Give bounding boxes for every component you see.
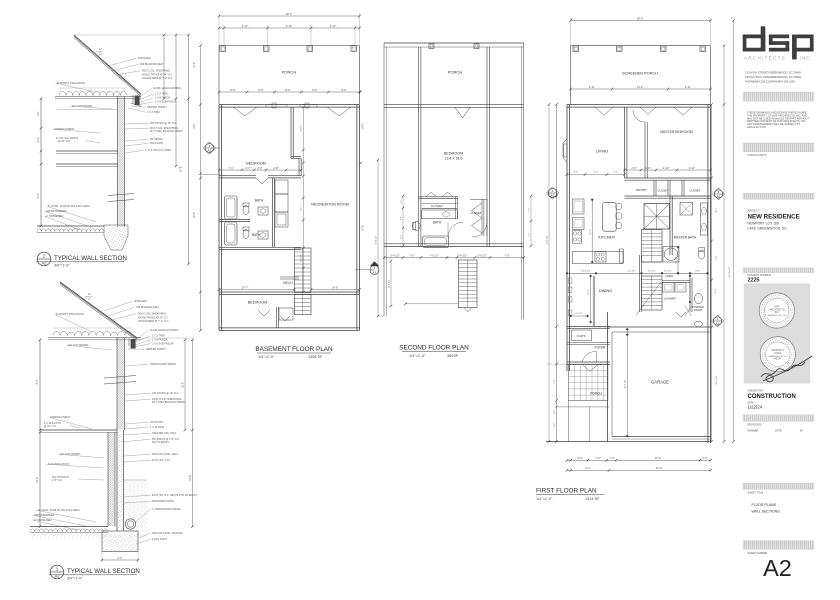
svg-text:16'-8": 16'-8" <box>194 212 196 218</box>
svg-text:WALL SECTIONS: WALL SECTIONS <box>752 510 781 514</box>
svg-text:VENTED SOFFIT: VENTED SOFFIT <box>147 106 167 109</box>
svg-text:ALUM. EAVE FLASHING: ALUM. EAVE FLASHING <box>150 329 178 332</box>
svg-text:2 X 8 SUB-FASCIA: 2 X 8 SUB-FASCIA <box>152 343 174 346</box>
svg-text:@ 16" O.C.: @ 16" O.C. <box>58 140 71 143</box>
svg-text:57'-8": 57'-8" <box>180 166 183 172</box>
svg-text:SHINGLES: SHINGLES <box>134 300 147 303</box>
svg-text:2'-0": 2'-0" <box>609 456 614 460</box>
svg-text:LIVING: LIVING <box>596 150 608 154</box>
svg-text:BEDROOM: BEDROOM <box>248 301 268 305</box>
svg-text:4'-11": 4'-11" <box>689 166 695 170</box>
svg-text:7'-6 1/2": 7'-6 1/2" <box>429 253 439 257</box>
svg-text:NEW RESIDENCE: NEW RESIDENCE <box>748 214 800 221</box>
svg-text:PANTRY: PANTRY <box>636 188 647 192</box>
svg-text:BEDROOM: BEDROOM <box>246 162 266 166</box>
svg-text:5'-4 1/2": 5'-4 1/2" <box>457 253 467 257</box>
svg-text:DINING: DINING <box>599 289 612 293</box>
svg-text:15# BUILDING FELT: 15# BUILDING FELT <box>136 306 160 309</box>
svg-text:7'-9": 7'-9" <box>504 253 509 257</box>
svg-text:OR RAFTERS AT 7'-4" O.C.: OR RAFTERS AT 7'-4" O.C. <box>142 77 173 80</box>
svg-text:1 X 10 TRIM: 1 X 10 TRIM <box>150 426 164 429</box>
svg-text:1 X 2 TRIM: 1 X 2 TRIM <box>152 335 165 338</box>
svg-text:TYPICAL WALL SECTION: TYPICAL WALL SECTION <box>54 255 127 262</box>
svg-text:#4 AT (24" O.C.): #4 AT (24" O.C.) <box>152 459 170 462</box>
svg-text:PORCH: PORCH <box>590 392 602 396</box>
svg-text:2X6 PLATE: 2X6 PLATE <box>150 142 163 145</box>
svg-text:15# BUILDING FELT: 15# BUILDING FELT <box>140 63 164 66</box>
svg-text:BY: BY <box>800 430 804 433</box>
svg-text:FIRST FLOOR PLAN: FIRST FLOOR PLAN <box>536 488 597 495</box>
svg-text:2X6 PLATE: 2X6 PLATE <box>150 421 163 424</box>
svg-text:2'-8" O.C.: 2'-8" O.C. <box>52 479 63 482</box>
svg-text:ROOM: ROOM <box>694 308 702 312</box>
svg-text:9/16 O.S.B. SHEATHING: 9/16 O.S.B. SHEATHING <box>138 313 166 316</box>
svg-text:3'-4 1/2": 3'-4 1/2" <box>390 253 400 257</box>
svg-text:4'-0": 4'-0" <box>594 172 598 174</box>
svg-text:5'-0 1/2": 5'-0 1/2" <box>664 271 672 273</box>
svg-text:7'-4": 7'-4" <box>554 379 556 384</box>
svg-text:2'-3": 2'-3" <box>257 166 262 170</box>
svg-text:10'-6": 10'-6" <box>588 289 590 295</box>
svg-text:VAPOR BARRIER: VAPOR BARRIER <box>34 514 55 517</box>
svg-text:2X6 STUDS @ 16" O.C.: 2X6 STUDS @ 16" O.C. <box>150 122 177 125</box>
svg-text:BASEMENT FLOOR PLAN: BASEMENT FLOOR PLAN <box>255 346 333 353</box>
svg-text:3000 PSI CONC. FOOTING: 3000 PSI CONC. FOOTING <box>152 532 183 535</box>
svg-text:2-#4'S CONT.: 2-#4'S CONT. <box>152 538 168 541</box>
svg-text:R-13 INSULATION: R-13 INSULATION <box>48 463 69 466</box>
svg-text:ALUM. EAVE FLASHING: ALUM. EAVE FLASHING <box>153 87 181 90</box>
svg-text:CLOSET: CLOSET <box>689 189 700 193</box>
svg-text:VAPOR BARRIER: VAPOR BARRIER <box>46 210 67 213</box>
svg-text:3/4"=1'-0": 3/4"=1'-0" <box>67 577 83 581</box>
svg-text:14'-0": 14'-0" <box>194 123 196 129</box>
svg-text:A2: A2 <box>763 555 792 581</box>
svg-text:4" STONE BED: 4" STONE BED <box>34 519 52 522</box>
svg-text:A2: A2 <box>54 574 60 579</box>
svg-text:PORCH: PORCH <box>448 70 463 75</box>
svg-text:8'-2": 8'-2" <box>312 88 317 92</box>
svg-text:4" CONC. SLAB W/ 6X6 10/10 WWM: 4" CONC. SLAB W/ 6X6 10/10 WWM <box>38 509 79 512</box>
svg-text:7'-8": 7'-8" <box>716 256 718 261</box>
svg-text:GREENWOOD, SC: GREENWOOD, SC <box>767 315 787 317</box>
svg-text:1 X 8 FASCIA: 1 X 8 FASCIA <box>155 97 171 100</box>
svg-text:1" X 3" STUCCO TRIM: 1" X 3" STUCCO TRIM <box>145 149 171 152</box>
svg-text:GARAGE: GARAGE <box>651 380 669 385</box>
svg-text:SECOND FLOOR PLAN: SECOND FLOOR PLAN <box>399 345 469 352</box>
svg-text:28'-0": 28'-0" <box>637 16 644 20</box>
svg-text:14'-2": 14'-2" <box>637 85 644 89</box>
svg-text:9'-2": 9'-2" <box>585 466 590 470</box>
svg-text:2'-8": 2'-8" <box>273 166 278 170</box>
svg-text:4" STONE BED: 4" STONE BED <box>46 215 64 218</box>
svg-text:REVISIONS: REVISIONS <box>748 424 762 427</box>
svg-text:1 X 8 FASCIA: 1 X 8 FASCIA <box>152 339 168 342</box>
svg-text:BATH: BATH <box>433 221 442 225</box>
svg-text:#4 AT (36" O.C. SET IN PTD. W: #4 AT (36" O.C. SET IN PTD. W/ EPOXY <box>152 494 198 497</box>
svg-text:2'-0": 2'-0" <box>117 556 122 560</box>
svg-text:PROJECT: PROJECT <box>748 210 760 213</box>
svg-text:SHEET TITLE: SHEET TITLE <box>748 492 764 495</box>
svg-text:CONSTRUCTION: CONSTRUCTION <box>748 394 796 400</box>
svg-text:7'-6": 7'-6" <box>529 208 531 212</box>
svg-text:3000 PSI CONC. WALL: 3000 PSI CONC. WALL <box>152 453 179 456</box>
svg-text:NUMBER: NUMBER <box>748 430 759 433</box>
svg-text:4" CONC. SLAB W/ 6X6 10/10 WWM: 4" CONC. SLAB W/ 6X6 10/10 WWM <box>48 205 89 208</box>
svg-text:1/4"=1'-0": 1/4"=1'-0" <box>536 497 553 501</box>
svg-text:R-38 BATT INSULATION: R-38 BATT INSULATION <box>57 82 85 85</box>
svg-text:2'-8": 2'-8" <box>695 271 700 273</box>
svg-text:47'-10 1/2": 47'-10 1/2" <box>729 267 731 278</box>
svg-text:11'-4 1/2": 11'-4 1/2" <box>388 279 390 288</box>
svg-text:@ 16" O.C.: @ 16" O.C. <box>44 425 57 428</box>
svg-text:CONSULTANTS: CONSULTANTS <box>748 153 767 157</box>
svg-text:8'-2": 8'-2" <box>258 88 263 92</box>
svg-text:4'-6": 4'-6" <box>715 289 717 294</box>
svg-text:ARCHITECTS: ARCHITECTS <box>744 55 786 60</box>
svg-text:PHONE/864 229-2100/FAX/864 229: PHONE/864 229-2100/FAX/864 229-2150 <box>745 80 796 84</box>
svg-text:3'-4": 3'-4" <box>574 172 578 174</box>
svg-text:NEWPORT LOT 169: NEWPORT LOT 169 <box>748 222 779 226</box>
svg-text:CLOSET: CLOSET <box>657 189 668 193</box>
svg-text:9'-11": 9'-11" <box>685 85 691 89</box>
svg-text:2'-6": 2'-6" <box>645 166 650 170</box>
svg-text:1/2" GYP. BOARD: 1/2" GYP. BOARD <box>72 105 92 108</box>
svg-text:2'-10": 2'-10" <box>663 166 670 170</box>
svg-text:32'-6 1/2": 32'-6 1/2" <box>625 379 627 388</box>
svg-text:9/16 O.S.B. SHEATHING: 9/16 O.S.B. SHEATHING <box>142 70 170 73</box>
svg-text:7'-1": 7'-1" <box>228 166 233 170</box>
svg-text:POSTAL BOX 1426/GREENWOOD,: POSTAL BOX 1426/GREENWOOD, SC 29649 <box>745 75 801 79</box>
svg-text:TYPICAL WALL SECTION: TYPICAL WALL SECTION <box>67 568 140 575</box>
svg-text:10'-2": 10'-2" <box>36 477 39 483</box>
svg-text:RECREATION ROOM: RECREATION ROOM <box>311 203 348 207</box>
svg-text:DATE: DATE <box>775 430 782 433</box>
svg-text:SCREENED PORCH: SCREENED PORCH <box>622 72 658 76</box>
svg-text:HARDI-PLANK SIDING: HARDI-PLANK SIDING <box>150 363 176 366</box>
svg-text:10'-4 1/2": 10'-4 1/2" <box>581 271 590 273</box>
svg-text:16'-9": 16'-9" <box>301 125 303 131</box>
svg-text:1 X 3 TRIM: 1 X 3 TRIM <box>147 111 160 114</box>
svg-text:6'-6": 6'-6" <box>577 456 582 460</box>
svg-text:W/ TYVEC BUILDING WRAP: W/ TYVEC BUILDING WRAP <box>150 130 183 133</box>
svg-text:HP SIDING: HP SIDING <box>150 138 163 141</box>
svg-text:A2: A2 <box>208 148 212 152</box>
svg-text:LEGAL ACTION.: LEGAL ACTION. <box>747 125 767 129</box>
svg-text:2'-0": 2'-0" <box>631 166 636 170</box>
svg-text:7'-0": 7'-0" <box>409 253 414 257</box>
svg-text:10'-6": 10'-6" <box>189 475 192 481</box>
svg-text:9'-2": 9'-2" <box>230 88 235 92</box>
svg-text:PORCH: PORCH <box>282 70 297 75</box>
svg-text:3'-7": 3'-7" <box>245 166 250 170</box>
svg-text:8'-0": 8'-0" <box>36 379 39 384</box>
svg-text:CLOSET: CLOSET <box>431 204 443 208</box>
svg-text:24'-1 1/2": 24'-1 1/2" <box>546 235 548 244</box>
svg-text:MECH: MECH <box>283 281 293 285</box>
svg-text:1'-6": 1'-6" <box>401 200 403 204</box>
svg-text:380SF: 380SF <box>447 354 459 358</box>
svg-text:13'-0": 13'-0" <box>181 382 184 388</box>
svg-text:3/4"=1'-0": 3/4"=1'-0" <box>54 264 70 268</box>
svg-text:1'-2": 1'-2" <box>37 111 40 116</box>
svg-text:ISSUED FOR: ISSUED FOR <box>748 390 763 393</box>
svg-text:9'-11": 9'-11" <box>589 85 595 89</box>
svg-text:1/4"=1'-0": 1/4"=1'-0" <box>409 354 426 358</box>
svg-text:A2: A2 <box>717 194 721 198</box>
svg-text:3'-6": 3'-6" <box>301 207 303 212</box>
svg-text:R-38 BATT INSULATION: R-38 BATT INSULATION <box>56 313 84 316</box>
svg-text:4" PERFORATED DRAIN: 4" PERFORATED DRAIN <box>152 508 181 511</box>
svg-text:1/4"=1'-0": 1/4"=1'-0" <box>258 355 275 359</box>
svg-text:DAVIS: DAVIS <box>774 352 781 355</box>
svg-text:1/2" GYP. BOARD: 1/2" GYP. BOARD <box>60 453 80 456</box>
svg-text:14'-6": 14'-6" <box>332 285 339 289</box>
svg-text:4'-0 1/2": 4'-0 1/2" <box>301 254 303 262</box>
svg-text:20'-0": 20'-0" <box>656 466 663 470</box>
svg-text:2'-2": 2'-2" <box>595 456 600 460</box>
svg-text:LAKE GREENWOOD, SC: LAKE GREENWOOD, SC <box>748 226 788 230</box>
svg-text:9'-2": 9'-2" <box>341 88 346 92</box>
svg-text:OR RAFTERS AT 7'-4" O.C.: OR RAFTERS AT 7'-4" O.C. <box>138 320 169 323</box>
svg-text:SHINGLES: SHINGLES <box>138 57 151 60</box>
svg-text:#2724: #2724 <box>774 358 781 361</box>
svg-text:BEDROOM: BEDROOM <box>444 152 464 156</box>
svg-text:2X6 STUDS @ 16" O.C.: 2X6 STUDS @ 16" O.C. <box>152 392 179 395</box>
svg-text:UNDERLAYMENT: UNDERLAYMENT <box>54 128 75 131</box>
svg-text:12'-8": 12'-8" <box>194 62 196 68</box>
svg-text:18'-4 1/2": 18'-4 1/2" <box>375 235 377 244</box>
svg-text:UNDERLAYMENT: UNDERLAYMENT <box>50 416 71 419</box>
svg-text:3'-4": 3'-4" <box>554 423 556 428</box>
svg-text:3'-6 1/2": 3'-6 1/2" <box>648 271 656 273</box>
svg-text:A2: A2 <box>41 261 47 266</box>
svg-text:8'-0": 8'-0" <box>37 137 40 142</box>
svg-text:BATH: BATH <box>252 233 261 237</box>
svg-text:MASTER BEDROOM: MASTER BEDROOM <box>660 130 693 134</box>
svg-text:12'-2": 12'-2" <box>590 229 592 235</box>
svg-text:20'-1 1/2": 20'-1 1/2" <box>716 375 718 384</box>
svg-text:26'-7": 26'-7" <box>716 207 718 213</box>
svg-text:2'-6": 2'-6" <box>401 216 403 220</box>
svg-text:7'-6": 7'-6" <box>529 233 531 237</box>
svg-text:INC.: INC. <box>800 55 813 60</box>
svg-text:WATERPROOFING: WATERPROOFING <box>152 500 174 503</box>
svg-text:FOYER: FOYER <box>595 346 607 350</box>
svg-text:3'-2": 3'-2" <box>614 172 618 174</box>
svg-text:BATH: BATH <box>255 199 264 203</box>
svg-text:1414 SF: 1414 SF <box>585 497 600 501</box>
svg-text:3'-9 1/2": 3'-9 1/2" <box>477 253 487 257</box>
svg-text:6'-10": 6'-10" <box>330 24 337 28</box>
svg-text:VENTED SOFFIT: VENTED SOFFIT <box>146 348 166 351</box>
svg-text:16'-8": 16'-8" <box>363 225 365 231</box>
svg-text:28'-0": 28'-0" <box>286 12 293 16</box>
svg-text:2'-0": 2'-0" <box>702 456 707 460</box>
svg-text:COATS: COATS <box>577 334 586 338</box>
svg-text:17'-7": 17'-7" <box>242 285 249 289</box>
svg-text:6'-10": 6'-10" <box>286 24 293 28</box>
svg-text:123 HIGH STREET/GREENWOOD,: 123 HIGH STREET/GREENWOOD, SC 29649 <box>745 71 801 75</box>
svg-text:A2: A2 <box>716 321 720 325</box>
svg-text:8'-2": 8'-2" <box>285 88 290 92</box>
svg-text:KITCHEN: KITCHEN <box>598 236 615 240</box>
svg-text:13-4 X 18-5: 13-4 X 18-5 <box>445 157 463 161</box>
svg-text:FLOOR PLANS: FLOOR PLANS <box>752 503 777 507</box>
svg-text:11'-2": 11'-2" <box>37 193 40 199</box>
svg-text:A2: A2 <box>551 193 555 197</box>
svg-text:CLOSET: CLOSET <box>471 211 482 215</box>
svg-text:LAUNDRY: LAUNDRY <box>664 297 677 301</box>
svg-text:MASTER BATH: MASTER BATH <box>674 236 697 240</box>
svg-text:LINEN: LINEN <box>665 274 673 278</box>
svg-text:INC: INC <box>775 311 779 314</box>
svg-text:TREATED 4X6. 2X10: TREATED 4X6. 2X10 <box>152 432 176 435</box>
svg-text:A2: A2 <box>373 271 377 275</box>
svg-text:1 X 2 TRIM: 1 X 2 TRIM <box>155 93 168 96</box>
svg-text:3'-4 1/2": 3'-4 1/2" <box>575 313 583 315</box>
svg-text:W/ TYVEC BUILDING WRAP: W/ TYVEC BUILDING WRAP <box>152 401 185 404</box>
svg-text:14'-0": 14'-0" <box>363 123 365 129</box>
svg-text:1/2" GYP. BOARD: 1/2" GYP. BOARD <box>68 344 88 347</box>
svg-text:1396 SF: 1396 SF <box>308 355 323 359</box>
svg-text:19'-0": 19'-0" <box>655 456 662 460</box>
svg-text:1/22/24: 1/22/24 <box>748 405 763 410</box>
svg-text:2 X 8 SUB-FASCIA: 2 X 8 SUB-FASCIA <box>155 101 177 104</box>
svg-text:4'-1 1/2": 4'-1 1/2" <box>627 271 635 273</box>
svg-text:2225: 2225 <box>748 278 760 284</box>
svg-text:6'-10": 6'-10" <box>242 24 249 28</box>
svg-text:1'-6": 1'-6" <box>554 410 556 415</box>
svg-text:2'-3": 2'-3" <box>401 235 403 239</box>
svg-text:SET IN EPOXY: SET IN EPOXY <box>152 441 170 444</box>
